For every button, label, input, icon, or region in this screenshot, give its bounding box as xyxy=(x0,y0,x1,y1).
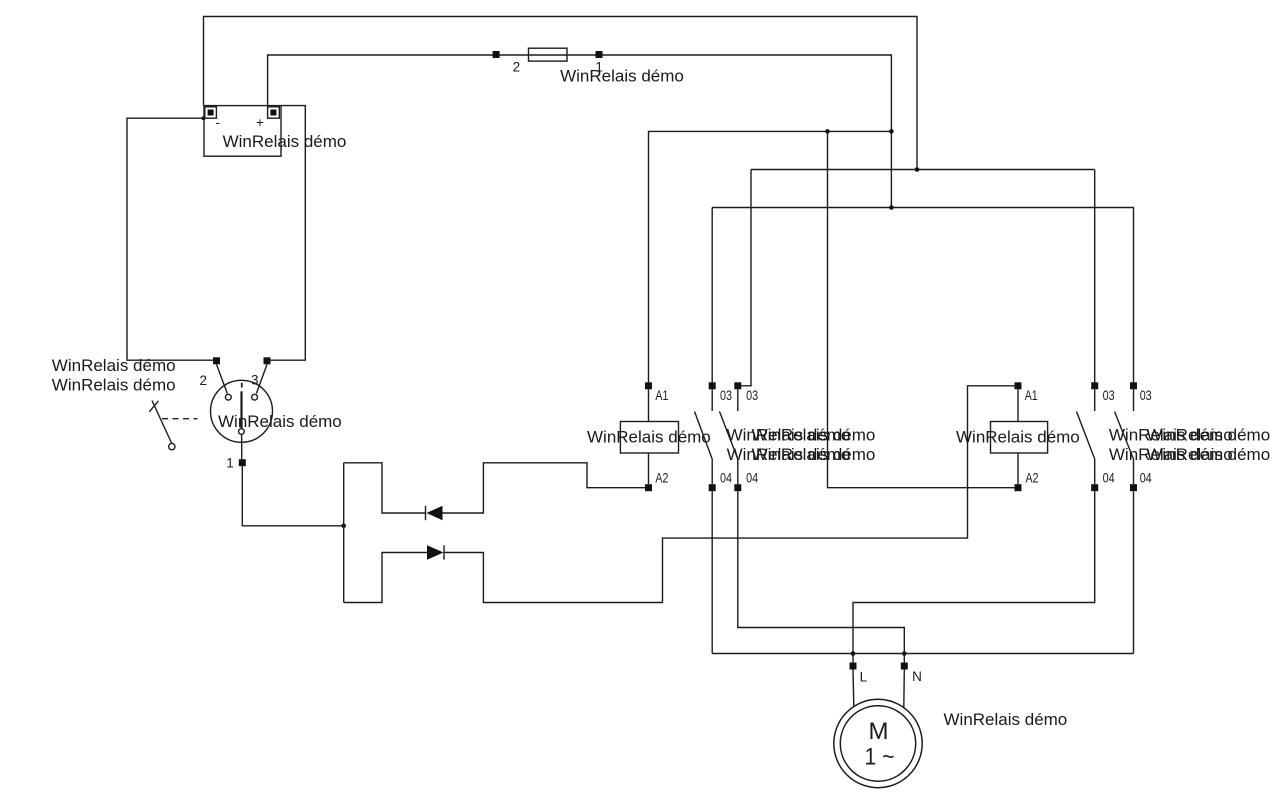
svg-text:04: 04 xyxy=(1103,471,1115,486)
node diode loop junction xyxy=(341,524,346,529)
svg-text:WinRelais démo: WinRelais démo xyxy=(1146,445,1270,464)
svg-text:1: 1 xyxy=(226,455,234,470)
label motor xyxy=(944,710,1068,729)
wire bottom bus y653 xyxy=(712,653,1133,655)
rotary switch S1 xyxy=(200,357,273,470)
relay coil K1 xyxy=(620,382,678,491)
svg-text:WinRelais démo: WinRelais démo xyxy=(560,66,684,85)
wire bus y207 xyxy=(712,207,1134,209)
wire contact D bottom down xyxy=(1133,491,1135,653)
manual actuator xyxy=(149,401,197,450)
svg-text:-: - xyxy=(216,115,221,130)
label contact B xyxy=(752,426,876,465)
wire coil K1 A1 up to bus xyxy=(649,131,892,385)
wire top bus xyxy=(204,17,918,170)
svg-text:04: 04 xyxy=(746,471,758,486)
svg-text:+: + xyxy=(256,115,264,130)
fuse F1 xyxy=(493,48,603,74)
label contact D xyxy=(1146,426,1270,465)
label fuse xyxy=(560,66,684,85)
label contact A xyxy=(727,426,851,465)
svg-text:WinRelais démo: WinRelais démo xyxy=(1146,426,1270,445)
wire diode D1 to coil K1 A2 xyxy=(443,463,646,513)
wire long vertical to coil K2 A2 xyxy=(828,131,1015,487)
wire contact D top feed xyxy=(1133,208,1135,383)
wire to diode D2 xyxy=(344,553,427,603)
power supply G1 xyxy=(204,106,281,157)
svg-text:1 ~: 1 ~ xyxy=(865,744,895,771)
svg-text:03: 03 xyxy=(1103,388,1115,403)
node bus y131 left xyxy=(825,129,830,134)
svg-text:03: 03 xyxy=(1140,388,1152,403)
wire battery plus side down to switch terminal 3 xyxy=(271,106,306,361)
svg-text:2: 2 xyxy=(513,59,521,74)
svg-text:WinRelais démo: WinRelais démo xyxy=(52,376,176,395)
svg-text:A1: A1 xyxy=(655,388,668,403)
contact B K2-1 xyxy=(720,382,759,491)
node bus y169 xyxy=(915,167,920,172)
motor M1 xyxy=(834,663,922,788)
svg-text:A2: A2 xyxy=(655,471,668,486)
label rotary switch name lines xyxy=(52,356,176,394)
wire to diode D1 xyxy=(344,463,426,513)
diode D2 xyxy=(427,545,444,559)
svg-text:2: 2 xyxy=(200,373,208,388)
svg-text:WinRelais démo: WinRelais démo xyxy=(944,710,1068,729)
wire switch pole 1 down xyxy=(242,466,343,526)
svg-text:A2: A2 xyxy=(1026,471,1039,486)
label relay coil K2 xyxy=(956,428,1080,447)
svg-text:N: N xyxy=(912,669,922,684)
node bus y131 right xyxy=(889,129,894,134)
svg-text:M: M xyxy=(869,718,889,745)
wire diode loop left vertical xyxy=(343,463,345,603)
svg-text:WinRelais démo: WinRelais démo xyxy=(218,412,342,431)
wire contact C bottom to L xyxy=(853,491,1095,662)
wire fuse line xyxy=(268,55,892,208)
wire contact C top feed xyxy=(1094,170,1096,383)
svg-text:03: 03 xyxy=(746,388,758,403)
contact C K1-2 xyxy=(1077,382,1115,491)
wire bus y169 xyxy=(751,169,1095,171)
label power supply xyxy=(223,132,347,151)
contact D K2-2 xyxy=(1115,382,1153,491)
svg-text:04: 04 xyxy=(720,471,732,486)
wire contact A top feed xyxy=(711,208,713,383)
relay coil K2 xyxy=(991,382,1048,491)
svg-text:04: 04 xyxy=(1140,471,1152,486)
wire contact B bottom to N xyxy=(738,491,905,662)
svg-text:WinRelais démo: WinRelais démo xyxy=(587,428,711,447)
svg-text:3: 3 xyxy=(251,373,259,388)
wire battery minus to switch xyxy=(127,118,213,360)
diode D1 xyxy=(426,506,443,520)
node N junction xyxy=(902,651,907,656)
svg-text:WinRelais démo: WinRelais démo xyxy=(752,426,876,445)
svg-text:WinRelais démo: WinRelais démo xyxy=(752,445,876,464)
label relay coil K1 xyxy=(587,428,711,447)
svg-text:WinRelais démo: WinRelais démo xyxy=(223,132,347,151)
label rotary switch xyxy=(218,412,342,431)
node bus y207 xyxy=(889,205,894,210)
svg-text:03: 03 xyxy=(720,388,732,403)
node L junction xyxy=(851,651,856,656)
wire diode D2 to coil K2 A1 xyxy=(444,386,1015,603)
node battery minus junction xyxy=(202,116,206,120)
wire contact B top feed xyxy=(741,170,751,386)
svg-text:A1: A1 xyxy=(1025,388,1038,403)
svg-text:WinRelais démo: WinRelais démo xyxy=(52,356,176,375)
label contact C xyxy=(1109,426,1233,465)
svg-text:WinRelais démo: WinRelais démo xyxy=(956,428,1080,447)
contact A K1-1 xyxy=(695,382,733,491)
wire contact A bottom down xyxy=(711,491,713,653)
svg-text:L: L xyxy=(860,670,868,685)
